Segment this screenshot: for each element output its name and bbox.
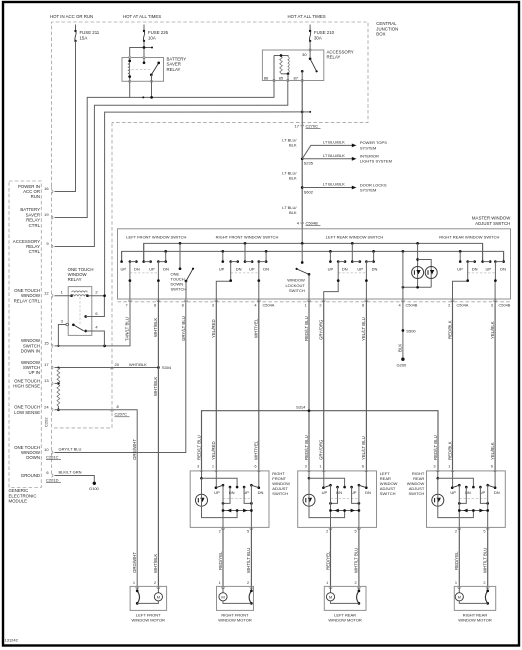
svg-text:2: 2 — [326, 529, 328, 534]
master switch pin 4 — [257, 300, 260, 302]
svg-text:12: 12 — [44, 290, 49, 295]
svg-text:RIGHT FRONT WINDOW SWITCH: RIGHT FRONT WINDOW SWITCH — [216, 234, 279, 239]
svg-text:C504A: C504A — [263, 302, 275, 307]
connector C270C pin 17 — [301, 125, 304, 127]
right rear output columns — [458, 485, 460, 527]
svg-text:WHT/LT BLU: WHT/LT BLU — [354, 548, 359, 573]
svg-text:7: 7 — [126, 302, 128, 307]
svg-text:YEL/BLK: YEL/BLK — [490, 321, 495, 339]
left rear adjust switch pins 3 1 6 — [308, 470, 311, 472]
svg-text:DOWN: DOWN — [26, 455, 40, 460]
GEM pin 17 (WINDOW SWITCH UP IN) — [52, 366, 54, 369]
svg-text:ELECTRONIC: ELECTRONIC — [9, 493, 37, 498]
ground G100 — [93, 482, 96, 485]
svg-text:WHT/BLK: WHT/BLK — [153, 377, 158, 396]
splice S314 and distribution line — [202, 411, 439, 472]
svg-text:RIGHT FRONT: RIGHT FRONT — [221, 612, 249, 617]
master switch pin 2 — [451, 300, 454, 302]
wire: GEM pin 6 ground to G100 (BLK/LT GRN) — [55, 476, 95, 483]
svg-text:1: 1 — [133, 580, 135, 585]
svg-text:131242: 131242 — [5, 638, 19, 643]
right front window switch mechanical link — [231, 272, 259, 274]
svg-text:UP: UP — [219, 267, 225, 272]
svg-text:S602: S602 — [304, 189, 314, 194]
left rear window switch mechanical link — [338, 272, 366, 274]
svg-text:LEFT REAR WINDOW SWITCH: LEFT REAR WINDOW SWITCH — [326, 234, 384, 239]
right rear window switch arm outputs — [453, 262, 468, 299]
left front window switch contacts — [121, 251, 123, 261]
right rear adjust switch bottom pins 2 5 — [458, 528, 461, 530]
svg-text:RED/LT BLU: RED/LT BLU — [196, 435, 201, 460]
right front adjust switch pins 3 1 6 — [200, 470, 203, 472]
right rear power feed to center contact — [437, 471, 439, 478]
svg-text:SWITCH: SWITCH — [289, 288, 305, 293]
one touch down switch — [179, 243, 181, 268]
wire WHT/YEL master to RF door switch — [258, 299, 260, 472]
right front contact cross-links — [223, 487, 230, 503]
svg-text:5: 5 — [483, 529, 485, 534]
master switch pin 4 — [401, 300, 404, 302]
svg-text:RELAY: RELAY — [327, 55, 341, 60]
battery saver relay coil — [128, 61, 130, 77]
svg-text:C504B: C504B — [406, 302, 418, 307]
svg-text:G100: G100 — [89, 486, 100, 491]
svg-text:C504A: C504A — [457, 302, 469, 307]
GEM pin 13 (ONE TOUCH HIGH SENSE) — [52, 382, 54, 385]
svg-text:5: 5 — [247, 529, 249, 534]
svg-text:UP: UP — [457, 267, 463, 272]
svg-text:2: 2 — [455, 529, 457, 534]
svg-text:M: M — [329, 594, 332, 599]
right front illumination lamp — [196, 494, 208, 506]
GEM pin 19 (BATTERY SAVER RELAY CTRL) — [52, 216, 54, 219]
wire: fuse 226 to battery saver relay — [143, 41, 145, 63]
left rear switch contacts — [323, 471, 325, 488]
svg-text:17: 17 — [44, 362, 49, 367]
left rear output columns — [330, 485, 332, 527]
svg-text:RIGHT REAR: RIGHT REAR — [463, 612, 488, 617]
svg-text:C207C: C207C — [115, 412, 128, 417]
wire RED/YEL to left rear motor — [330, 527, 332, 586]
svg-text:FUSE 210: FUSE 210 — [314, 30, 335, 35]
left rear mechanical link — [331, 498, 359, 500]
one touch relay contact 4 — [84, 330, 87, 333]
svg-text:FUSE 211: FUSE 211 — [80, 30, 100, 35]
svg-text:GROUND: GROUND — [21, 473, 40, 478]
svg-text:C504B: C504B — [306, 220, 319, 225]
splice S500 — [402, 329, 405, 332]
svg-text:GRY/ORG: GRY/ORG — [319, 439, 324, 460]
svg-text:DN: DN — [236, 267, 242, 272]
one touch relay switch arm — [66, 323, 69, 326]
right front mechanical link — [223, 498, 251, 500]
one touch relay coil — [72, 291, 88, 292]
master switch pin 3 — [215, 300, 218, 302]
left rear contact cross-links — [331, 487, 338, 503]
svg-text:1: 1 — [212, 464, 214, 469]
right rear window switch mechanical link — [468, 272, 496, 274]
svg-text:RED/BLK: RED/BLK — [447, 320, 452, 339]
wire YEL/LT BLU master to LR door switch — [365, 299, 367, 472]
svg-text:85: 85 — [279, 75, 284, 80]
wire: acc relay pin 87 down to master switch (LT BLU/BLK) — [301, 81, 303, 229]
svg-text:DN: DN — [365, 490, 371, 495]
left rear window switch arm outputs — [324, 262, 339, 299]
left front window switch arm outputs — [129, 262, 131, 299]
wire BLK master ground to G200 — [402, 299, 404, 359]
right front direction row — [223, 510, 251, 512]
right rear window motor M — [454, 580, 495, 611]
svg-text:DN: DN — [163, 267, 169, 272]
accessory relay U-ACC — [262, 41, 323, 82]
GEM pin 12 (ONE TOUCH WINDOW RELAY CTRL) — [52, 294, 54, 297]
svg-text:C201C: C201C — [46, 455, 59, 460]
svg-text:1: 1 — [219, 580, 221, 585]
wire: GEM pin 24 line through C207C to ORG/WHT — [55, 410, 138, 587]
svg-text:LT BLU/BLK: LT BLU/BLK — [323, 153, 345, 158]
svg-text:3: 3 — [305, 464, 307, 469]
svg-text:SWITCH: SWITCH — [380, 491, 396, 496]
svg-text:15: 15 — [44, 341, 49, 346]
svg-text:UP: UP — [357, 267, 363, 272]
svg-text:YEL/RED: YEL/RED — [211, 441, 216, 460]
wire WHT/LT BLU to right rear motor — [487, 527, 489, 586]
right rear mechanical link — [459, 498, 487, 500]
GEM pin 10 (ONE TOUCH WINDOW DOWN) — [52, 451, 54, 454]
svg-text:17: 17 — [295, 123, 300, 128]
svg-text:6: 6 — [362, 464, 364, 469]
svg-text:BLK: BLK — [289, 143, 297, 148]
GEM pin 15 (WINDOW SWITCH DOWN IN) — [52, 344, 54, 347]
left rear window adjust switch — [298, 464, 377, 528]
svg-text:RELAY CTRL: RELAY CTRL — [14, 298, 41, 303]
svg-text:GRY/ORG: GRY/ORG — [319, 319, 324, 340]
svg-text:UP: UP — [450, 490, 456, 495]
branch arrow: INTERIOR LIGHTS SYSTEM — [302, 158, 352, 160]
wire WHT/BLK (pin 8) to S304 and LF motor — [157, 299, 159, 586]
branch arrow: POWER TOPS SYSTEM — [302, 145, 352, 158]
svg-text:1: 1 — [319, 464, 321, 469]
svg-text:10: 10 — [44, 447, 49, 452]
wire line C: acc relay pin 87 output to one-touch relay pin 2 — [105, 112, 303, 296]
svg-text:S314: S314 — [296, 405, 306, 410]
wire line B: acc relay pin 85 to GEM pin 9 — [55, 81, 288, 247]
battery saver relay U-BS — [122, 56, 164, 82]
ground G200 — [401, 358, 404, 361]
svg-text:CTRL: CTRL — [29, 249, 41, 254]
svg-text:WHT/BLK: WHT/BLK — [129, 362, 147, 367]
one touch sense resistor — [57, 367, 59, 369]
right front window switch arm outputs — [216, 262, 230, 299]
svg-text:RED/YEL: RED/YEL — [454, 551, 459, 570]
svg-text:LOW SENSE: LOW SENSE — [14, 410, 40, 415]
svg-text:87: 87 — [294, 75, 299, 80]
svg-text:M: M — [157, 594, 160, 599]
svg-text:3: 3 — [212, 302, 214, 307]
GEM connector dashed line — [51, 186, 53, 476]
wire: GEM pin 10 line (GRY/LT BLU) — [55, 299, 186, 453]
svg-text:LEFT FRONT WINDOW SWITCH: LEFT FRONT WINDOW SWITCH — [126, 234, 186, 239]
right front window motor M — [217, 580, 254, 611]
svg-text:DOWN IN: DOWN IN — [21, 349, 40, 354]
wire WHT/LT BLU to left rear motor — [358, 527, 360, 586]
left rear illumination lamp — [303, 494, 315, 506]
right front window switch contacts — [222, 251, 224, 261]
svg-text:5: 5 — [355, 529, 357, 534]
svg-text:2: 2 — [247, 580, 249, 585]
svg-text:UP IN: UP IN — [28, 370, 40, 375]
lamp symbol at x=431.2 — [425, 267, 437, 279]
svg-text:C270C: C270C — [306, 123, 319, 128]
fuse 226 10A — [143, 25, 145, 32]
svg-text:WINDOW MOTOR: WINDOW MOTOR — [132, 618, 166, 623]
master switch illumination lamps — [417, 243, 419, 287]
svg-text:WHT/BLK: WHT/BLK — [153, 318, 158, 337]
svg-text:DN: DN — [500, 267, 506, 272]
svg-text:ORG/WHT: ORG/WHT — [132, 552, 137, 573]
accessory relay coil and resistor — [280, 57, 283, 74]
svg-text:6: 6 — [254, 464, 256, 469]
svg-text:RED/YEL: RED/YEL — [218, 551, 223, 570]
svg-text:WHT/LT BLU: WHT/LT BLU — [483, 548, 488, 573]
svg-text:SYSTEM: SYSTEM — [360, 145, 376, 150]
right rear direction row — [459, 510, 487, 512]
GEM pin 24 (ONE TOUCH LOW SENSE) — [52, 408, 54, 411]
svg-text:M: M — [221, 594, 224, 599]
svg-text:RED/BLK: RED/BLK — [447, 441, 452, 460]
svg-text:BLK/LT GRN: BLK/LT GRN — [59, 470, 82, 475]
svg-text:DN: DN — [258, 490, 264, 495]
fuse 210 30A — [309, 25, 311, 32]
svg-text:GRY/LT BLU: GRY/LT BLU — [181, 316, 186, 341]
one touch window relay U-OT — [55, 267, 106, 346]
right front output columns — [222, 485, 224, 527]
GEM pin 9 (ACCESSORY RELAY CTRL) — [52, 245, 54, 248]
svg-text:TAN/LT BLU: TAN/LT BLU — [125, 317, 130, 341]
svg-text:ADJUST SWITCH: ADJUST SWITCH — [475, 221, 510, 226]
svg-text:FUSE 226: FUSE 226 — [148, 30, 169, 35]
right rear switch contacts — [452, 471, 454, 488]
master switch pin 3 — [494, 300, 497, 302]
master switch ground bus — [122, 251, 504, 261]
svg-text:3: 3 — [197, 464, 199, 469]
svg-text:LEFT FRONT: LEFT FRONT — [136, 612, 161, 617]
svg-text:RUN: RUN — [31, 194, 40, 199]
left rear window motor M — [324, 580, 366, 611]
right rear illumination lamp — [432, 494, 444, 506]
wire RED/YEL to right front motor — [222, 527, 224, 586]
connector C504B pin 4 — [301, 222, 304, 224]
one touch relay actuator dashed — [79, 297, 81, 324]
svg-text:LEFT REAR: LEFT REAR — [334, 612, 356, 617]
svg-text:2: 2 — [448, 302, 450, 307]
svg-text:WHT/YEL: WHT/YEL — [254, 440, 259, 460]
svg-text:1: 1 — [448, 464, 450, 469]
svg-text:DN: DN — [494, 490, 500, 495]
svg-text:MODULE: MODULE — [9, 499, 28, 504]
wire RED/LT BLU lockout output through S314 — [308, 299, 310, 472]
wire line A: battery saver outputs / acc relay pin 86 to GEM pin 19 — [129, 81, 131, 97]
svg-text:HIGH SENSE: HIGH SENSE — [13, 384, 40, 389]
accessory relay contact to pin 87 — [301, 70, 304, 73]
svg-text:C202: C202 — [43, 417, 48, 427]
svg-text:HOT AT ALL TIMES: HOT AT ALL TIMES — [123, 14, 161, 19]
generic electronic module (dashed box) — [9, 181, 41, 488]
svg-text:16: 16 — [44, 186, 49, 191]
right rear adjust switch pins 3 1 6 — [436, 470, 439, 472]
svg-text:DN: DN — [263, 267, 269, 272]
svg-text:20: 20 — [115, 362, 120, 367]
svg-text:HOT AT ALL TIMES: HOT AT ALL TIMES — [288, 14, 326, 19]
connector C207C pin 8 — [111, 410, 114, 412]
fuse 211 15A — [75, 25, 77, 32]
master switch pin 2 — [322, 300, 325, 302]
svg-text:WINDOW MOTOR: WINDOW MOTOR — [218, 618, 252, 623]
svg-text:BLK: BLK — [289, 175, 297, 180]
in-line connector pin 20 — [111, 368, 114, 370]
svg-text:6: 6 — [491, 464, 493, 469]
svg-text:UP: UP — [214, 490, 220, 495]
svg-text:30A: 30A — [314, 35, 322, 40]
svg-text:UP: UP — [322, 490, 328, 495]
battery saver relay contact and arm — [143, 58, 145, 63]
svg-text:YEL/LT BLU: YEL/LT BLU — [361, 436, 366, 460]
svg-text:2: 2 — [355, 580, 357, 585]
svg-text:24: 24 — [44, 404, 49, 409]
svg-text:UP: UP — [121, 267, 127, 272]
left rear power feed to center contact — [308, 471, 310, 478]
wire WHT/LT BLU to right front motor — [250, 527, 252, 586]
branch arrow: DOOR LOCKS SYSTEM — [302, 187, 352, 189]
svg-text:DN: DN — [342, 267, 348, 272]
svg-text:8: 8 — [362, 302, 364, 307]
GEM pin 16 (POWER IN ACC OR RUN) — [52, 190, 54, 193]
svg-text:10A: 10A — [148, 35, 156, 40]
svg-text:YEL/RED: YEL/RED — [211, 319, 216, 338]
wire RED/YEL to right rear motor — [458, 527, 460, 586]
svg-text:DN: DN — [472, 267, 478, 272]
right rear window adjust switch — [427, 464, 506, 528]
master window adjust switch box — [118, 229, 511, 299]
master switch connector row C504 — [118, 301, 511, 303]
svg-text:UP: UP — [328, 267, 334, 272]
svg-text:C504B: C504B — [499, 302, 511, 307]
svg-text:G200: G200 — [397, 363, 408, 368]
svg-text:SYSTEM: SYSTEM — [360, 187, 376, 192]
svg-text:C201D: C201D — [46, 478, 59, 483]
svg-text:RED/LT BLU: RED/LT BLU — [304, 316, 309, 341]
svg-text:GENERIC: GENERIC — [9, 488, 29, 493]
one-touch dashed enclosure boundary — [52, 123, 112, 428]
svg-text:S235: S235 — [304, 161, 314, 166]
splice S235 — [301, 157, 304, 160]
svg-text:1: 1 — [326, 580, 328, 585]
accessory relay arm — [310, 59, 317, 72]
svg-text:WHT/LT BLU: WHT/LT BLU — [246, 548, 251, 573]
wire GRY/ORG master to LR door switch — [323, 299, 325, 472]
svg-text:CTRL: CTRL — [29, 223, 41, 228]
svg-text:30: 30 — [302, 52, 307, 57]
master switch pin 8 — [185, 300, 188, 302]
left rear direction row — [331, 510, 359, 512]
GEM pin 6 (GROUND) — [52, 474, 54, 477]
svg-text:LT BLU/BLK: LT BLU/BLK — [323, 140, 345, 145]
svg-text:8: 8 — [154, 302, 156, 307]
svg-text:2: 2 — [319, 302, 321, 307]
master switch pin 1 — [308, 300, 311, 302]
central junction box (dashed enclosure) — [52, 22, 369, 186]
wire RED/BLK master to RR door switch — [452, 299, 454, 472]
svg-text:UP: UP — [149, 267, 155, 272]
left front window switch mechanical link — [130, 272, 159, 274]
battery saver relay actuator (dashed) — [132, 69, 151, 71]
svg-text:LIGHTS SYSTEM: LIGHTS SYSTEM — [360, 159, 392, 164]
svg-text:8: 8 — [182, 302, 184, 307]
right front window adjust switch — [190, 464, 269, 528]
svg-text:WINDOW MOTOR: WINDOW MOTOR — [458, 618, 492, 623]
svg-text:WINDOW MOTOR: WINDOW MOTOR — [328, 618, 362, 623]
svg-text:2: 2 — [219, 529, 221, 534]
svg-text:RIGHT REAR WINDOW SWITCH: RIGHT REAR WINDOW SWITCH — [439, 234, 499, 239]
left rear window switch contacts — [329, 251, 331, 261]
splice S304 — [157, 366, 160, 369]
right front adjust switch bottom pins 2 5 — [222, 528, 225, 530]
svg-text:HOT IN ACC OR RUN: HOT IN ACC OR RUN — [50, 14, 93, 19]
svg-text:M: M — [458, 594, 461, 599]
svg-text:RED/LT BLU: RED/LT BLU — [304, 435, 309, 460]
svg-text:SWITCH: SWITCH — [409, 491, 425, 496]
wire: GEM pin 15 line (window switch down in / TAN/LT BLU) — [55, 299, 131, 346]
svg-text:DN: DN — [372, 267, 378, 272]
right front switch contacts — [215, 471, 217, 488]
lamp symbol at x=417.6 — [412, 267, 424, 279]
svg-text:S500: S500 — [406, 328, 416, 333]
wire YEL/BLK master to RR door switch — [494, 299, 496, 472]
master switch pin 8 — [157, 300, 160, 302]
right rear contact cross-links — [459, 487, 466, 503]
svg-text:BLK: BLK — [398, 344, 403, 352]
svg-text:MASTER WINDOW: MASTER WINDOW — [472, 215, 511, 220]
svg-text:19: 19 — [44, 212, 49, 217]
svg-text:DN: DN — [134, 267, 140, 272]
master switch pin 7 — [128, 300, 131, 302]
svg-text:RELAY: RELAY — [68, 277, 82, 282]
svg-text:RED/LT BLU: RED/LT BLU — [433, 435, 438, 460]
svg-text:13: 13 — [44, 378, 49, 383]
svg-text:1: 1 — [455, 580, 457, 585]
svg-text:1: 1 — [305, 302, 307, 307]
svg-text:ORG/WHT: ORG/WHT — [132, 439, 137, 460]
svg-text:2: 2 — [154, 580, 156, 585]
svg-text:WHT/YEL: WHT/YEL — [254, 318, 259, 338]
one touch relay contact 6 — [84, 315, 87, 318]
svg-text:BLK: BLK — [289, 210, 297, 215]
svg-text:S304: S304 — [162, 365, 172, 370]
svg-text:RED/YEL: RED/YEL — [325, 551, 330, 570]
svg-text:UP: UP — [486, 267, 492, 272]
svg-text:86: 86 — [264, 75, 269, 80]
svg-text:BOX: BOX — [376, 32, 385, 37]
right rear window switch contacts — [459, 251, 461, 261]
svg-text:GRY/LT BLU: GRY/LT BLU — [59, 447, 82, 452]
wire YEL/RED master to RF door switch — [215, 299, 217, 472]
svg-text:2: 2 — [483, 580, 485, 585]
wire: GEM pin 13 stub — [55, 382, 59, 384]
right front power feed to center contact — [201, 471, 203, 478]
window lockout switch — [301, 243, 303, 262]
svg-text:SWITCH: SWITCH — [272, 491, 288, 496]
svg-text:3: 3 — [491, 302, 493, 307]
